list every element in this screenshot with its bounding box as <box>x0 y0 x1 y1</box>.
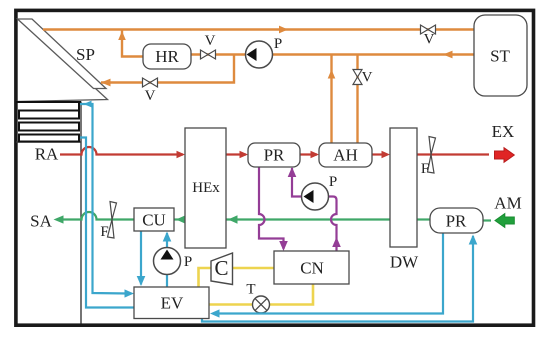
pre-cooler PR top <box>248 143 300 167</box>
svg-text:PR: PR <box>446 212 467 231</box>
arrow SA out <box>54 215 64 223</box>
arrow into HEx right <box>228 215 238 223</box>
svg-text:EV: EV <box>161 294 184 313</box>
condenser CN <box>274 251 349 284</box>
fan F on EX line <box>428 137 436 174</box>
arrow up on AH return riser <box>328 70 336 79</box>
svg-text:V: V <box>362 70 373 86</box>
svg-text:DW: DW <box>390 253 419 272</box>
wire: PR right down to EV right <box>213 233 443 314</box>
solar panel SP strip <box>18 19 107 89</box>
valve V on AH supply riser (vertical) <box>353 70 373 86</box>
wire: CN down through T valve to EV <box>270 284 314 305</box>
wire: line A from SP to ST <box>43 28 474 30</box>
wire: line B from ST back through pump <box>143 53 474 55</box>
pre-cooler PR right <box>430 208 483 233</box>
arrow into PR <box>240 151 249 158</box>
arrow into CU right <box>176 215 186 223</box>
wire: AH to DW <box>372 153 387 155</box>
fan F on SA line <box>108 202 117 239</box>
wire: CN up to pump with bridge over green <box>329 197 337 252</box>
valve V on line A near ST <box>421 25 436 48</box>
arrow up into PR right <box>469 235 478 245</box>
wire: PR down to CN with bridge over green <box>259 167 284 250</box>
arrow up on HR riser <box>118 31 126 40</box>
pump P3 <box>154 248 193 275</box>
arrow up from CN to pump <box>332 237 341 247</box>
thick AM arrow <box>495 214 514 228</box>
arrow left on line C to SP <box>101 79 111 87</box>
svg-text:P: P <box>274 36 282 52</box>
svg-text:P: P <box>184 254 192 270</box>
svg-text:CN: CN <box>300 259 324 278</box>
wire: DW to PR right <box>417 218 430 220</box>
wire: pump P3 to CU <box>166 233 168 248</box>
svg-text:V: V <box>145 88 156 104</box>
arrow down into CN <box>279 241 288 251</box>
arrow on line B into pump (left) <box>443 51 453 59</box>
arrow into EV left <box>125 289 135 297</box>
compressor C <box>211 253 233 285</box>
wire: CU down to EV <box>140 231 142 285</box>
wire: HEx to PR <box>226 153 246 155</box>
arrow down into EV top <box>137 276 146 286</box>
air heater AH <box>319 143 372 167</box>
wire: HEx to DW <box>226 218 390 220</box>
coil serpentine <box>19 103 79 142</box>
svg-text:C: C <box>214 256 228 280</box>
valve V on line C <box>143 78 158 104</box>
svg-text:RA: RA <box>35 145 59 164</box>
evaporator EV <box>134 287 209 319</box>
arrow up into CU <box>163 232 172 242</box>
svg-text:PR: PR <box>264 146 285 165</box>
svg-text:HEx: HEx <box>192 180 220 196</box>
wire: AH return riser <box>330 55 332 144</box>
pump P1 on line B <box>246 36 283 68</box>
wire: coil bottom pipe to EV left lower <box>80 138 134 308</box>
wire: RA line with bridge over blue pipes <box>60 147 183 155</box>
wire: PR to AH <box>300 153 317 155</box>
wire: SA line with bridge over blue pipes <box>63 212 134 219</box>
svg-text:P: P <box>329 174 337 190</box>
cooling unit CU <box>134 208 174 231</box>
arrow into coil <box>84 101 92 108</box>
svg-text:CU: CU <box>142 211 166 230</box>
arrow into AH <box>311 151 320 158</box>
wire: DW to EX <box>417 153 489 155</box>
svg-text:SA: SA <box>30 212 52 231</box>
svg-text:EX: EX <box>492 122 515 141</box>
svg-text:AH: AH <box>333 146 358 165</box>
wire: EV to compressor <box>199 268 212 287</box>
heat recovery HR <box>143 44 191 69</box>
wire: line C return to SP <box>101 55 234 83</box>
svg-text:V: V <box>424 32 435 48</box>
heat exchanger HEx <box>185 128 226 248</box>
coil box under SP <box>16 101 81 103</box>
svg-text:T: T <box>246 282 255 298</box>
arrow left into EV right <box>210 309 220 317</box>
wire: EV top to pump P3 <box>166 275 168 288</box>
wire: PR right to AM <box>482 219 491 221</box>
svg-text:HR: HR <box>155 47 179 66</box>
expansion valve T <box>246 282 269 314</box>
wall below solar panel <box>80 102 82 324</box>
solar panel SP roof line <box>16 27 108 102</box>
wire: compressor to CN <box>233 267 275 270</box>
svg-text:ST: ST <box>490 47 510 66</box>
pump P2 <box>302 174 338 210</box>
svg-text:SP: SP <box>76 45 95 64</box>
storage tank ST <box>474 15 527 96</box>
wire: pump to PR riser <box>292 168 302 197</box>
wire: AH supply riser with valve <box>356 55 358 144</box>
wire: HR outlet riser <box>122 30 143 57</box>
svg-text:V: V <box>205 33 216 49</box>
arrow into DW <box>382 151 391 158</box>
svg-text:F: F <box>421 161 429 177</box>
arrow up into PR <box>288 167 297 177</box>
wire: CU to HEx gap <box>174 218 185 220</box>
thick EX arrow <box>495 148 515 163</box>
svg-text:AM: AM <box>494 194 521 213</box>
wire: coil top pipe down to EV left <box>80 104 130 294</box>
arrow on line A right <box>279 26 288 34</box>
svg-text:F: F <box>100 224 108 240</box>
arrow into HEx <box>177 151 186 158</box>
wire: EV bottom to PR right riser <box>202 236 473 322</box>
desiccant wheel DW <box>390 128 419 272</box>
valve V on line B after HR <box>201 33 216 59</box>
